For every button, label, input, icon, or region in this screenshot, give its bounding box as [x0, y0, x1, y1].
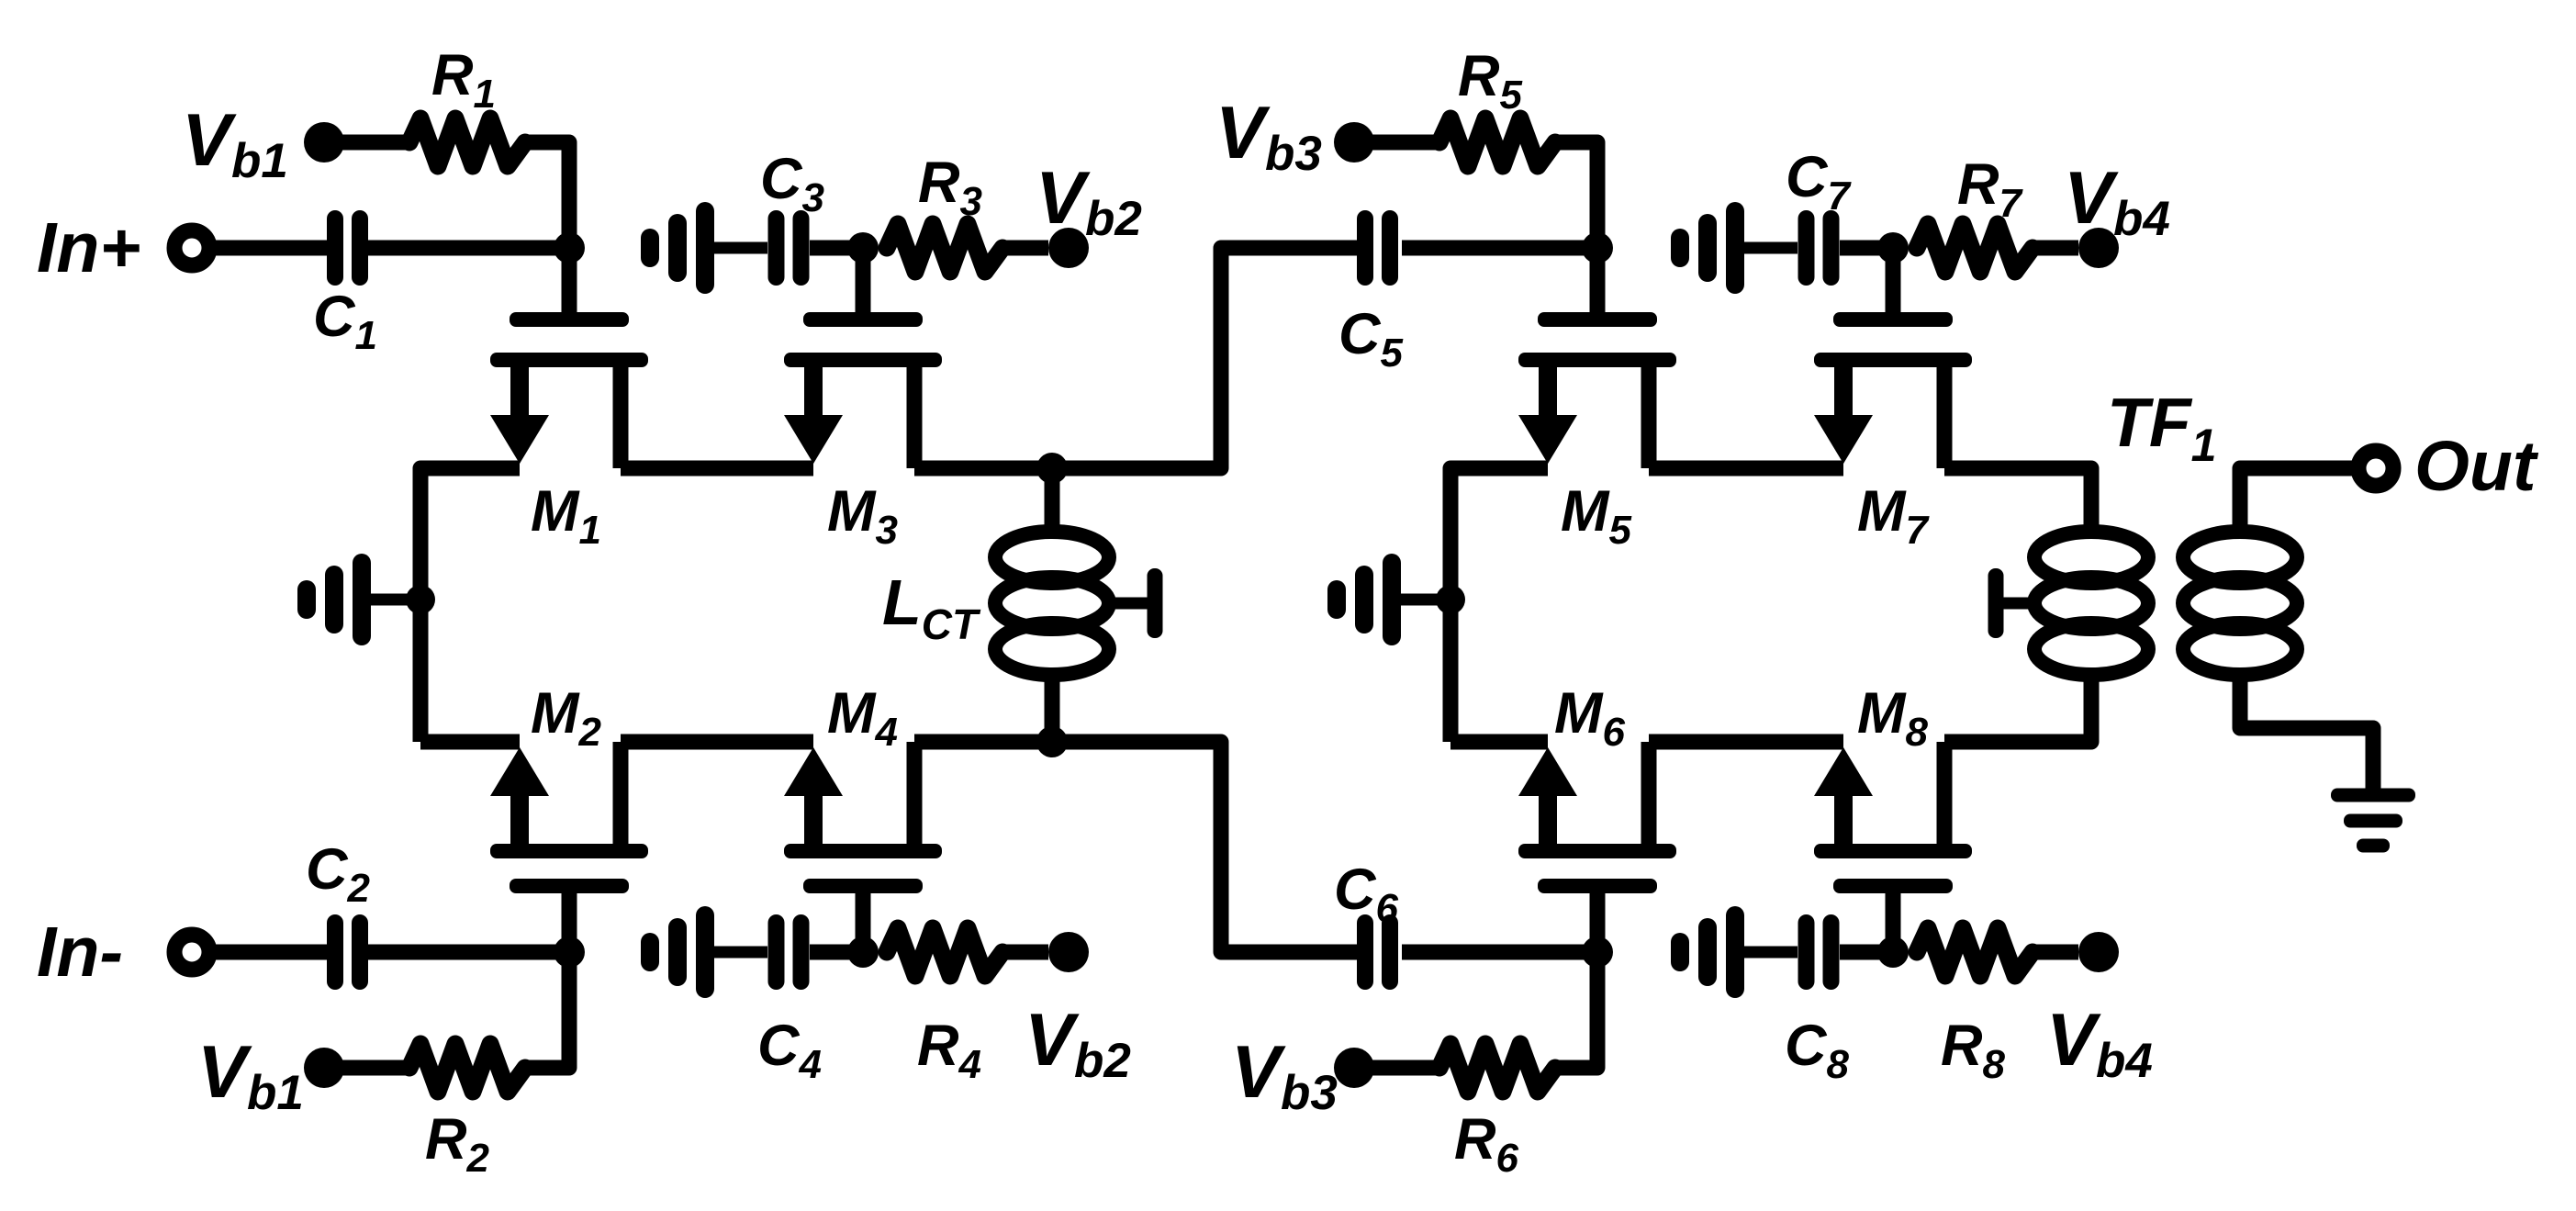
svg-text:In-: In-	[37, 913, 123, 992]
svg-text:Out: Out	[2414, 427, 2539, 506]
svg-text:In+: In+	[37, 208, 140, 287]
